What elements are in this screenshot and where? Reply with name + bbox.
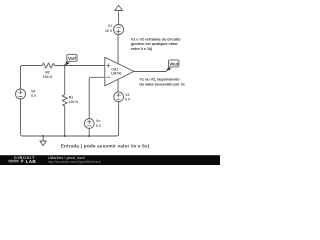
net flag Vref <box>65 54 77 65</box>
wire op-amp output <box>134 71 166 73</box>
svg-text:V1: V1 <box>108 24 112 28</box>
svg-text:Vout: Vout <box>169 62 179 67</box>
voltage source V1 (positive supply) <box>105 24 124 34</box>
svg-text:5 V: 5 V <box>31 94 37 98</box>
svg-text:Entrada ( pode assumir valor 0: Entrada ( pode assumir valor 0v e 5v) <box>61 144 150 149</box>
svg-text:V9: V9 <box>31 90 35 94</box>
svg-text:0 V: 0 V <box>125 97 131 101</box>
svg-text:10 V: 10 V <box>105 29 113 33</box>
node Vref junction <box>64 64 66 66</box>
ground <box>40 135 46 146</box>
annotation inputs note <box>131 36 182 51</box>
resistor R2 <box>41 63 57 79</box>
svg-text:Vc: Vc <box>96 119 100 123</box>
wire R2 to op-amp + input <box>56 65 105 67</box>
svg-text:http://circuitlab.com/c/hg5a98: http://circuitlab.com/c/hg5a98ar5mm4 <box>48 160 101 164</box>
svg-text:100 Ω: 100 Ω <box>43 75 53 79</box>
voltage source V9 <box>16 89 37 99</box>
power flag VCC <box>115 5 123 10</box>
svg-text:LAB: LAB <box>26 159 37 164</box>
voltage source Vc <box>84 77 105 137</box>
op-amp OA1 LM741 <box>105 35 134 92</box>
svg-text:entre 0 e 10): entre 0 e 10) <box>131 46 153 51</box>
resistor R1 <box>62 66 78 137</box>
annotation output note <box>139 76 186 86</box>
svg-text:do valor assumido por Vc: do valor assumido por Vc <box>139 81 186 86</box>
wire left riser from V9 bottom to bottom rail <box>21 99 44 136</box>
node R1 bottom junction <box>64 135 66 137</box>
svg-text:LM741: LM741 <box>111 72 122 76</box>
bottom rail wire <box>43 135 116 137</box>
voltage source V2 (negative supply) <box>114 92 131 102</box>
svg-text:V2: V2 <box>125 93 129 97</box>
wire V1 top to power flag <box>118 12 120 25</box>
footer bar <box>0 155 220 165</box>
svg-text:Vref: Vref <box>68 56 77 61</box>
svg-text:0 V: 0 V <box>96 124 102 128</box>
svg-text:100 Ω: 100 Ω <box>69 100 79 104</box>
net flag Vout <box>166 60 179 72</box>
wire V2 bottom to bottom rail <box>117 102 119 136</box>
wire left riser from V9 top to top rail <box>21 66 41 90</box>
